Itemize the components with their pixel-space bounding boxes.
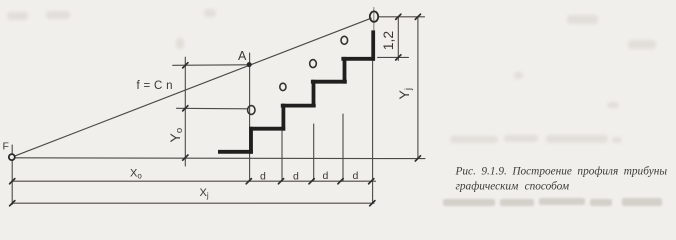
node A dot — [247, 62, 252, 67]
wire extension horizontal at tread5 level — [378, 56, 409, 58]
node O (last row eye point) — [370, 11, 378, 21]
svg-text:d: d — [353, 170, 359, 182]
tread 1 — [218, 150, 253, 154]
riser 2 — [281, 104, 285, 131]
tread 2 — [249, 127, 285, 131]
node theta1 eye point — [248, 106, 255, 115]
svg-text:графическим способом: графическим способом — [456, 180, 570, 192]
wire diagonal sight line F-O — [12, 18, 372, 157]
svg-text:d: d — [293, 171, 299, 183]
wire extension vertical riser5 to Xj — [372, 61, 374, 203]
wire Yj dimension vertical — [417, 17, 419, 159]
svg-text:f=Cn: f=Cn — [137, 80, 177, 92]
svg-text:A: A — [238, 49, 247, 63]
wire extension vertical riser2 — [281, 131, 283, 181]
tread 5 — [341, 57, 375, 61]
svg-text:1,2: 1,2 — [380, 31, 396, 51]
riser 4 — [343, 57, 347, 84]
node F circle — [9, 154, 15, 160]
svg-text:Рис. 9.1.9. Построение профиля: Рис. 9.1.9. Построение профиля трибуны — [455, 165, 668, 177]
dimension ticks — [10, 14, 421, 206]
wire extension vertical through A and theta1 — [249, 53, 251, 181]
tribune step profile (thick) — [218, 30, 375, 153]
wire Xo/d dimension line — [12, 180, 375, 182]
tread 4 — [311, 80, 347, 84]
riser 3 — [312, 80, 316, 108]
wire top horizontal at O level — [379, 16, 425, 18]
node theta2 eye point — [280, 83, 286, 90]
wire 1,2 dimension vertical — [397, 17, 399, 61]
wire vertical through F — [11, 145, 13, 205]
wire f=Cn / Yo dimension vertical — [184, 57, 186, 166]
node theta3 eye point — [310, 60, 317, 68]
wire baseline through F — [12, 157, 425, 160]
riser 5 (top parapet) — [371, 30, 375, 60]
scan ghost text band bottom right — [443, 198, 662, 206]
wire faint vertical above riser5 to O — [373, 8, 375, 31]
node theta4 eye point — [341, 36, 348, 44]
riser 1 — [249, 127, 253, 154]
wire extension vertical riser4 — [342, 114, 344, 181]
scan ghost smudges — [7, 9, 656, 143]
wire extension horizontal at A level — [173, 64, 247, 67]
wire Xj dimension line — [12, 202, 374, 204]
svg-text:d: d — [323, 170, 329, 182]
tread 3 — [281, 104, 316, 108]
wire extension horizontal at theta1 level — [177, 107, 248, 110]
svg-text:F: F — [3, 141, 9, 153]
svg-text:d: d — [260, 171, 266, 183]
wire extension vertical riser3 — [313, 124, 315, 181]
